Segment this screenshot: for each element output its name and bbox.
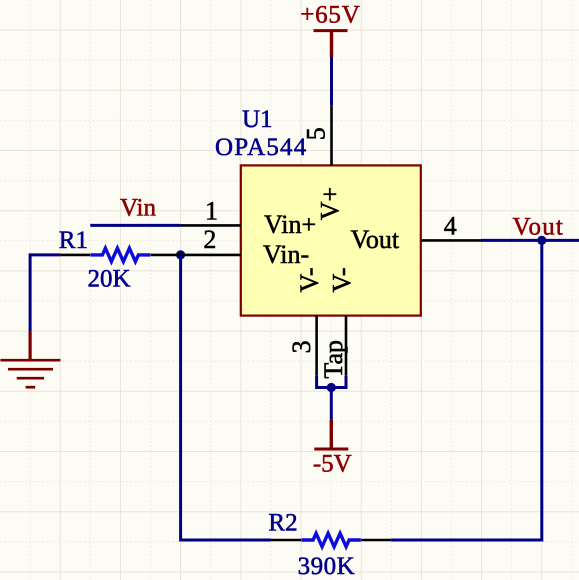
wire R2 right to Vout node	[391, 240, 542, 540]
svg-text:Vin-: Vin-	[263, 240, 309, 269]
svg-text:R1: R1	[59, 227, 88, 254]
svg-text:-5V: -5V	[313, 450, 352, 477]
svg-text:5: 5	[301, 127, 330, 140]
wire V+ net	[330, 57, 333, 105]
wire Vin net	[90, 224, 180, 227]
pin 1 (Vin+)	[181, 224, 241, 227]
ground symbol	[0, 332, 60, 388]
svg-text:U1: U1	[242, 106, 273, 133]
wire R1 left to ground	[30, 255, 60, 332]
svg-text:Vin: Vin	[120, 195, 156, 222]
pin Tap (tab, V-)	[345, 316, 348, 376]
power port -5V	[314, 420, 348, 449]
svg-text:4: 4	[444, 212, 457, 241]
power port +65V	[314, 31, 348, 57]
svg-text:V-: V-	[328, 267, 357, 292]
resistor R2	[271, 539, 391, 542]
svg-text:Vin+: Vin+	[264, 210, 316, 239]
svg-text:V+: V+	[315, 187, 344, 220]
op-amp U1 body	[241, 165, 421, 315]
junction at V- node	[327, 383, 336, 392]
wire V- bottom U	[317, 376, 346, 388]
svg-text:1: 1	[205, 196, 218, 225]
wire Vout net	[481, 239, 579, 242]
svg-text:2: 2	[203, 225, 216, 254]
svg-text:390K: 390K	[298, 553, 356, 580]
wire inverting-input net (junction to R2 left)	[181, 255, 271, 540]
svg-text:20K: 20K	[87, 265, 130, 292]
svg-text:Tap: Tap	[319, 340, 348, 379]
junction at Vin- node	[176, 250, 185, 259]
resistor R1	[60, 254, 180, 257]
svg-text:+65V: +65V	[300, 1, 360, 28]
svg-text:OPA544: OPA544	[215, 134, 307, 161]
pin 3 (V-)	[315, 316, 318, 376]
pin 5 (V+)	[330, 105, 333, 165]
svg-text:Vout: Vout	[513, 213, 565, 240]
junction at Vout node	[537, 236, 546, 245]
svg-text:3: 3	[287, 340, 316, 353]
wire V- stem	[330, 388, 333, 420]
pin 4 (Vout)	[421, 239, 481, 242]
pin 2 (Vin-)	[181, 254, 241, 257]
svg-text:Vout: Vout	[351, 225, 400, 254]
svg-text:R2: R2	[268, 510, 297, 537]
svg-text:V-: V-	[295, 267, 324, 292]
